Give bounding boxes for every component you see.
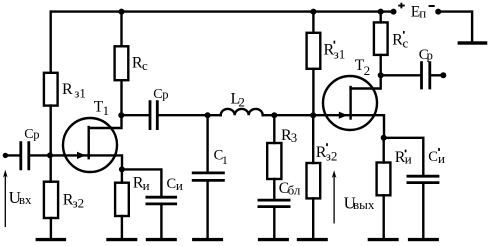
arrow gate T1: [77, 152, 86, 159]
ground: [146, 238, 177, 241]
wire T2 source: [351, 115, 384, 138]
arrow gate T2: [339, 112, 348, 119]
ground top right: [458, 41, 488, 44]
ground: [297, 238, 328, 241]
svg-text:p: p: [427, 48, 433, 62]
capacitor Cp (input): [21, 141, 29, 170]
node top rail Rc': [378, 9, 384, 15]
prime Rз2': [326, 143, 328, 146]
prime Rз1': [333, 41, 335, 44]
capacitor Cбл: [258, 200, 291, 207]
arrow Uвх: [4, 173, 6, 227]
wire Rз2' branch: [312, 115, 314, 163]
node drain T1: [118, 112, 124, 118]
node source T1: [119, 166, 125, 172]
svg-text:вых: вых: [353, 197, 375, 212]
svg-text:C: C: [24, 127, 33, 142]
wire Cp to L2: [159, 114, 221, 116]
ground: [36, 238, 67, 241]
svg-text:p: p: [162, 87, 168, 101]
wire Rc' to top rail: [380, 12, 382, 23]
wire Rз2 to ground: [50, 218, 52, 238]
wire Cp to gate node / gate line T1: [30, 154, 88, 156]
wire Rc to top rail: [120, 12, 122, 47]
inductor L2: [221, 109, 263, 115]
wire Cp out to terminal: [431, 74, 443, 76]
svg-text:п: п: [419, 5, 426, 20]
svg-text:3: 3: [291, 131, 297, 145]
ground: [408, 238, 439, 241]
wire terminal to Cp: [5, 154, 19, 156]
svg-text:C: C: [153, 87, 162, 102]
wire R3 to Cбл: [273, 179, 275, 199]
svg-text:и: и: [405, 152, 412, 167]
ground: [192, 238, 223, 241]
label −: [429, 5, 435, 7]
resistor Rз2': [307, 163, 321, 198]
wire source node to Cи': [384, 138, 424, 175]
wire T1 source: [89, 155, 122, 169]
svg-text:и: и: [143, 178, 150, 193]
arrow Uвых: [333, 174, 335, 224]
input terminal: [3, 153, 8, 158]
label +: [398, 3, 405, 9]
svg-text:R: R: [62, 81, 73, 98]
resistor R3: [267, 143, 281, 179]
svg-text:и: и: [176, 178, 183, 193]
wire top rail: [51, 10, 394, 12]
output terminal: [440, 72, 446, 78]
resistor Rи': [377, 163, 391, 196]
node top rail Rз1': [310, 9, 316, 15]
wire C1 branch: [206, 115, 208, 171]
transistor T1: [63, 118, 117, 172]
node source T2: [381, 135, 387, 141]
wire R3 branch: [273, 115, 275, 143]
svg-text:з2: з2: [326, 148, 338, 163]
wire gate node to Rз2: [50, 155, 52, 181]
svg-text:вх: вх: [19, 192, 32, 207]
svg-text:p: p: [33, 127, 39, 141]
capacitor Cи: [146, 197, 178, 204]
wire C1 to ground: [206, 182, 208, 238]
svg-text:з1: з1: [74, 86, 86, 101]
wire T2 drain: [351, 55, 381, 89]
capacitor C1: [192, 173, 225, 181]
wire left vertical: [50, 12, 52, 73]
node C1: [205, 112, 211, 118]
resistor Rз2: [44, 182, 58, 218]
node top rail Rc: [119, 9, 125, 15]
prime Rи': [405, 150, 407, 153]
svg-text:С: С: [167, 176, 177, 192]
wire drain node to Cp out: [381, 74, 420, 76]
wire source to Rи: [121, 169, 123, 182]
svg-text:1: 1: [222, 153, 228, 167]
prime Rc': [403, 31, 405, 34]
wire Rи' to ground: [383, 195, 385, 238]
svg-text:2: 2: [364, 63, 371, 78]
svg-text:з1: з1: [334, 46, 346, 61]
resistor Rc: [115, 46, 129, 80]
battery terminal −: [435, 9, 441, 15]
prime Cи': [438, 148, 440, 151]
wire gate line T2: [313, 114, 350, 116]
svg-text:и: и: [438, 151, 445, 166]
svg-text:c: c: [403, 35, 409, 50]
wire Rз2' to ground: [312, 198, 314, 238]
node gate T1: [47, 152, 53, 158]
node T2 gate: [310, 112, 316, 118]
wire source node to Cи: [122, 169, 161, 196]
ground: [258, 238, 289, 241]
wire Rз1' branch: [312, 69, 314, 115]
transistor T2: [323, 76, 377, 130]
svg-text:С: С: [428, 149, 438, 165]
ground: [368, 238, 399, 241]
node drain T2: [378, 72, 384, 78]
wire − terminal to ground: [438, 12, 472, 41]
resistor Rз1': [307, 33, 321, 69]
wire source to Rи': [383, 138, 385, 163]
node R3: [271, 112, 277, 118]
capacitor Cp (interstage): [150, 100, 157, 130]
capacitor Cp (output): [422, 61, 430, 89]
wire Rз1 to gate node T1: [50, 106, 52, 156]
resistor Rз1: [44, 73, 58, 106]
wire Cбл to ground: [273, 208, 275, 238]
wire Rз1' to top rail: [312, 12, 314, 33]
wire Rи to ground: [121, 216, 123, 238]
wire drain node to Cp mid: [122, 114, 149, 116]
svg-text:c: c: [142, 58, 148, 73]
svg-text:бл: бл: [288, 183, 301, 198]
wire L2 to T2 gate node: [263, 114, 314, 116]
capacitor Cи': [407, 176, 440, 182]
wire Cи' to ground: [422, 184, 424, 238]
svg-text:2: 2: [238, 95, 245, 110]
wire T1 drain up to Rc: [89, 80, 122, 128]
ground: [106, 238, 137, 241]
svg-text:1: 1: [103, 103, 110, 118]
svg-text:R: R: [392, 31, 403, 48]
svg-text:з2: з2: [73, 196, 85, 211]
resistor Rc': [374, 22, 388, 55]
wire Cи to ground: [160, 205, 162, 238]
resistor Rи: [115, 183, 129, 216]
battery terminal +: [391, 9, 397, 15]
